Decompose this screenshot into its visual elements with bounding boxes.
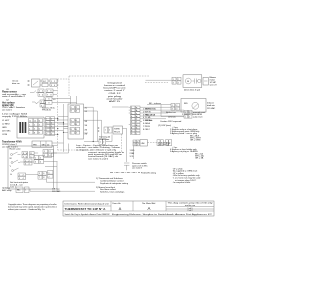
switch contact G fan bbox=[10, 168, 19, 176]
line voltage label block bbox=[2, 113, 28, 118]
svg-text:IND: IND bbox=[184, 103, 188, 105]
run capacitor box bbox=[203, 78, 208, 86]
wire : C13 drop bbox=[133, 146, 135, 159]
svg-text:7: 7 bbox=[39, 177, 40, 179]
dashed enclosure : corner link bbox=[58, 78, 70, 80]
connector C4 receptacle bbox=[30, 152, 35, 158]
note (2) short bbox=[158, 125, 179, 129]
svg-text:8 OR C: 8 OR C bbox=[143, 129, 151, 131]
pressure switch PS1 symbol bbox=[124, 163, 129, 170]
note 2 text block bbox=[96, 186, 125, 194]
twinning plug box bbox=[113, 126, 123, 134]
wire : blower feed neutral dashed bbox=[145, 81, 168, 83]
svg-text:24V SEC: 24V SEC bbox=[2, 131, 11, 133]
title block cell 2 text bbox=[113, 203, 122, 211]
title block cell 3 text bbox=[142, 202, 156, 211]
svg-text:3 Agency listed – use w. plug: 3 Agency listed – use w. plug bbox=[170, 132, 198, 135]
svg-text:see n.9: see n.9 bbox=[210, 85, 218, 87]
wire colour legend B bbox=[195, 153, 204, 160]
numbered note list A bbox=[170, 128, 200, 135]
svg-text:BL low: BL low bbox=[146, 120, 153, 122]
wire : collector to C11 bbox=[84, 135, 112, 142]
svg-text:4: 4 bbox=[40, 162, 41, 164]
svg-text:L2 NEU: L2 NEU bbox=[2, 124, 10, 126]
svg-text:GR = GRN: GR = GRN bbox=[190, 139, 201, 141]
svg-text:2: 2 bbox=[109, 130, 110, 132]
svg-text:2: 2 bbox=[54, 81, 55, 83]
limit switch S1 bbox=[32, 79, 41, 87]
svg-text:1: 1 bbox=[29, 124, 30, 126]
svg-text:LIM: LIM bbox=[141, 143, 145, 145]
svg-text:5: 5 bbox=[47, 91, 48, 93]
thermostat notes text bbox=[10, 181, 28, 189]
connector C4 plug bbox=[22, 152, 28, 158]
svg-text:7: 7 bbox=[45, 102, 46, 104]
svg-text:Limit sw: Limit sw bbox=[168, 116, 176, 119]
svg-text:L2: L2 bbox=[34, 120, 36, 122]
svg-text:GND: GND bbox=[2, 127, 7, 129]
terminal list text bbox=[130, 150, 135, 158]
svg-text:1: 1 bbox=[173, 79, 174, 81]
svg-text:6 GR A: 6 GR A bbox=[143, 122, 150, 125]
svg-text:4: 4 bbox=[169, 142, 170, 144]
svg-text:4: 4 bbox=[54, 85, 55, 87]
connector C5 bbox=[24, 159, 32, 165]
svg-text:1: 1 bbox=[158, 142, 159, 144]
svg-text:A: A bbox=[148, 206, 151, 211]
wire : IFC pins to risers bbox=[84, 107, 102, 133]
svg-text:door sw.: door sw. bbox=[12, 82, 20, 85]
connector C11 bbox=[99, 139, 106, 144]
svg-text:3: 3 bbox=[173, 83, 174, 85]
svg-text:L1: L1 bbox=[29, 120, 31, 122]
svg-text:THERMOSTAT TO 14P N° A: THERMOSTAT TO 14P N° A bbox=[65, 207, 106, 211]
svg-text:7: 7 bbox=[47, 95, 48, 97]
svg-text:2: 2 bbox=[42, 91, 43, 93]
node C6 label : top-left sensor callout bbox=[12, 80, 20, 86]
svg-text:RD 18GA: RD 18GA bbox=[146, 113, 156, 116]
svg-text:1: 1 bbox=[134, 141, 135, 143]
connector C7 edge bbox=[38, 172, 46, 180]
svg-text:1: 1 bbox=[185, 117, 186, 119]
svg-text:2: 2 bbox=[161, 142, 162, 144]
svg-text:and its use: and its use bbox=[185, 204, 196, 207]
svg-text:3: 3 bbox=[172, 109, 173, 111]
connector C1 plug bbox=[42, 79, 48, 87]
svg-text:3: 3 bbox=[51, 85, 52, 87]
wire : aux limit dashed link bbox=[147, 142, 157, 144]
svg-text:draft mtr: draft mtr bbox=[207, 104, 215, 107]
svg-text:8: 8 bbox=[43, 177, 44, 179]
wire : bus to IFC left pins bbox=[58, 117, 68, 127]
wire : riser R3 bbox=[101, 120, 103, 138]
svg-text:2: 2 bbox=[40, 157, 41, 159]
svg-text:1: 1 bbox=[25, 190, 26, 192]
svg-text:5: 5 bbox=[34, 128, 35, 130]
svg-text:Switch No. Key to Symbols. Ama: Switch No. Key to Symbols. Amana Parts 0… bbox=[65, 213, 111, 216]
svg-text:notes 2 and 7: notes 2 and 7 bbox=[105, 89, 126, 92]
svg-text:2: 2 bbox=[51, 119, 52, 121]
svg-text:1: 1 bbox=[44, 151, 45, 153]
bus wire vertical V1 bbox=[63, 104, 65, 152]
svg-text:4: 4 bbox=[44, 105, 45, 107]
title block frame bbox=[63, 201, 214, 216]
svg-text:8: 8 bbox=[51, 95, 52, 97]
svg-text:115 VAC: 115 VAC bbox=[207, 107, 216, 110]
svg-text:and header: and header bbox=[107, 97, 123, 100]
svg-text:Switches, fuses and plugs: Switches, fuses and plugs bbox=[100, 191, 125, 194]
under-box note text bbox=[76, 144, 125, 160]
connector C10 bbox=[16, 187, 29, 193]
svg-text:1: 1 bbox=[25, 160, 26, 162]
right row 1 : rollout switch bbox=[166, 110, 206, 114]
svg-text:M: M bbox=[187, 81, 189, 83]
twinning label text bbox=[99, 136, 110, 141]
terminal column TB1 bbox=[46, 117, 55, 136]
disclaimer paragraph bbox=[8, 203, 57, 211]
svg-text:L1 HOT: L1 HOT bbox=[2, 120, 10, 122]
switch contact W heat bbox=[10, 152, 21, 160]
wire : rollout feeds bbox=[161, 105, 184, 117]
svg-text:4: 4 bbox=[29, 164, 30, 166]
wire : riser R1 bbox=[92, 107, 94, 141]
svg-text:7: 7 bbox=[29, 132, 30, 134]
svg-text:Inducer: Inducer bbox=[207, 102, 214, 105]
svg-text:No. Metal Ref.: No. Metal Ref. bbox=[142, 202, 156, 205]
dashed drop from twin area bbox=[121, 134, 123, 152]
right row 2 : limit switch bbox=[168, 115, 203, 119]
svg-text:6: 6 bbox=[43, 173, 44, 175]
transformer T1 box bbox=[32, 141, 52, 147]
svg-text:Caution 115V exposed: Caution 115V exposed bbox=[160, 120, 182, 123]
terminal labels L1 L2 GND bbox=[2, 120, 11, 136]
switch contact Y cool bbox=[10, 160, 21, 168]
svg-text:BK – inducer: BK – inducer bbox=[149, 102, 161, 105]
inducer motor text bbox=[207, 102, 216, 110]
wire : verticals into IFC bbox=[52, 96, 77, 104]
svg-text:4: 4 bbox=[137, 144, 138, 146]
connector pins J1 bbox=[27, 80, 30, 86]
svg-text:1: 1 bbox=[49, 172, 50, 174]
svg-text:3: 3 bbox=[25, 164, 26, 166]
svg-text:manual reset: manual reset bbox=[193, 111, 206, 114]
svg-text:1: 1 bbox=[105, 130, 106, 132]
svg-text:Room t-stat: Room t-stat bbox=[10, 148, 21, 151]
bullet note list bbox=[172, 167, 201, 184]
svg-text:8: 8 bbox=[49, 102, 50, 104]
svg-text:1: 1 bbox=[51, 81, 52, 83]
junction dots on bus bbox=[57, 118, 64, 135]
fan-out wires CN1 to right bbox=[142, 107, 184, 119]
wire : inducer feed bbox=[147, 104, 171, 106]
svg-text:2: 2 bbox=[49, 176, 50, 178]
svg-text:2 BR: 2 BR bbox=[130, 153, 135, 155]
blower motor M1 bbox=[183, 75, 202, 88]
svg-text:COM: COM bbox=[2, 134, 7, 136]
connector C7b outside bbox=[48, 171, 53, 179]
twinning pins symbol bbox=[98, 127, 100, 132]
svg-text:4: 4 bbox=[178, 83, 179, 85]
svg-text:Rollout sw: Rollout sw bbox=[166, 111, 176, 114]
CN1 pin stubs bbox=[129, 107, 142, 124]
spark gap symbol E1 bbox=[30, 91, 38, 93]
wire : K1 pins to bus bbox=[44, 119, 68, 135]
svg-text:note 4 and table 2: note 4 and table 2 bbox=[2, 95, 26, 98]
svg-text:3: 3 bbox=[19, 178, 20, 180]
svg-text:5 Agency cut plug w. 18 AWG: 5 Agency cut plug w. 18 AWG bbox=[170, 150, 198, 153]
wire : label to header bbox=[112, 106, 129, 108]
svg-text:1: 1 bbox=[172, 105, 173, 107]
thermostat label bbox=[10, 148, 21, 151]
connector C14 bbox=[157, 140, 163, 146]
svg-text:see notes 5 and 6: see notes 5 and 6 bbox=[88, 157, 109, 160]
blower motor connector C16 bbox=[172, 77, 181, 84]
blower motor text bbox=[210, 76, 218, 87]
wire : riser R2 bbox=[97, 111, 99, 142]
svg-text:1: 1 bbox=[19, 175, 20, 177]
svg-text:3: 3 bbox=[166, 142, 167, 144]
svg-text:7: 7 bbox=[46, 130, 47, 132]
svg-text:3: 3 bbox=[35, 162, 36, 164]
numbered note list B bbox=[170, 148, 198, 153]
svg-text:see note 8: see note 8 bbox=[132, 167, 143, 170]
svg-text:3: 3 bbox=[39, 124, 40, 126]
lower-left legend text bbox=[2, 187, 12, 192]
fan-out wire labels bbox=[146, 108, 156, 123]
transformer T1 text bbox=[2, 141, 22, 149]
svg-text:Dimensions: Refer dimensional: Dimensions: Refer dimensional dwg of uni… bbox=[65, 203, 109, 206]
note text : igniter harness bbox=[42, 107, 56, 112]
wire : C9 to IFC bbox=[53, 144, 68, 154]
svg-text:Duplicate of anticipator setti: Duplicate of anticipator setting bbox=[100, 182, 129, 185]
svg-text:(4) C/W tag: (4) C/W tag bbox=[158, 144, 170, 147]
svg-text:AMP 15: AMP 15 bbox=[109, 100, 121, 103]
svg-text:note 1: note 1 bbox=[10, 186, 17, 189]
svg-text:· In neoprene sheet: · In neoprene sheet bbox=[172, 181, 191, 184]
svg-text:1: 1 bbox=[39, 91, 40, 93]
svg-text:PLUG: PLUG bbox=[114, 132, 120, 134]
svg-text:1: 1 bbox=[35, 157, 36, 159]
svg-text:4: 4 bbox=[29, 128, 30, 130]
svg-text:Dwn chk: Dwn chk bbox=[113, 203, 122, 205]
flame sensor FS text bbox=[2, 91, 27, 99]
svg-text:2: 2 bbox=[29, 160, 30, 162]
connector C6 bbox=[18, 173, 26, 179]
main edge connector CN1 bbox=[131, 106, 141, 135]
dash-dot field wiring line bbox=[110, 172, 140, 174]
wire colour legend A bbox=[190, 136, 202, 142]
svg-text:3: 3 bbox=[39, 95, 40, 97]
title block cell 1 text bbox=[65, 203, 111, 216]
svg-text:2: 2 bbox=[189, 112, 190, 114]
limit control row : connector C13 bbox=[133, 140, 139, 146]
svg-text:6: 6 bbox=[49, 99, 50, 101]
svg-text:Engineering Release. Simplex t: Engineering Release. Simplex to Switchbo… bbox=[112, 213, 213, 216]
connector C8 receptacle bbox=[46, 89, 57, 96]
connector C2 receptacle bbox=[44, 97, 56, 104]
svg-text:8: 8 bbox=[51, 130, 52, 132]
svg-text:4: 4 bbox=[42, 95, 43, 97]
svg-text:3: 3 bbox=[44, 155, 45, 157]
integrated furnace control board IFC U1 bbox=[68, 104, 84, 139]
svg-text:6: 6 bbox=[51, 91, 52, 93]
connector C2 plug bbox=[40, 100, 46, 107]
svg-text:Blower: Blower bbox=[210, 76, 217, 79]
svg-text:1: 1 bbox=[46, 119, 47, 121]
svg-text:4: 4 bbox=[50, 155, 51, 157]
thermostat enclosure TH1 bbox=[8, 146, 54, 189]
svg-text:auto reset: auto reset bbox=[193, 116, 203, 119]
svg-text:5: 5 bbox=[39, 173, 40, 175]
connector C9 pair bbox=[43, 150, 53, 157]
svg-text:2: 2 bbox=[103, 141, 104, 143]
svg-text:1: 1 bbox=[41, 102, 42, 104]
svg-text:2: 2 bbox=[189, 117, 190, 119]
svg-text:2: 2 bbox=[178, 79, 179, 81]
svg-text:2: 2 bbox=[34, 124, 35, 126]
svg-text:5: 5 bbox=[45, 99, 46, 101]
svg-text:2: 2 bbox=[137, 141, 138, 143]
svg-text:2: 2 bbox=[176, 105, 177, 107]
wire : tstat internal bbox=[20, 153, 58, 175]
connector C8 plug bbox=[38, 89, 44, 96]
twinning connector C12 bbox=[104, 127, 112, 133]
svg-text:6: 6 bbox=[39, 128, 40, 130]
svg-text:8: 8 bbox=[34, 132, 35, 134]
svg-text:7 PR B: 7 PR B bbox=[143, 126, 150, 128]
svg-text:see note 6: see note 6 bbox=[2, 108, 13, 111]
wire : twin plug to LS riser bbox=[123, 129, 127, 163]
connector C15 bbox=[165, 140, 171, 146]
wire : S1 to C1 bbox=[40, 81, 59, 85]
aux limit box bbox=[140, 140, 147, 146]
svg-text:P/N 0131: P/N 0131 bbox=[42, 110, 52, 112]
svg-text:2: 2 bbox=[50, 151, 51, 153]
svg-text:A: A bbox=[119, 206, 122, 211]
EAC terminal text bbox=[52, 188, 61, 193]
svg-text:2: 2 bbox=[23, 175, 24, 177]
svg-text:without prior consent – Goodma: without prior consent – Goodman Mfg. Co. bbox=[8, 208, 45, 211]
note (3)(4) lines bbox=[158, 143, 178, 149]
connector pin numbers overlay bbox=[17, 79, 190, 192]
igniter text block bbox=[2, 101, 25, 111]
svg-text:2 of 2: 2 of 2 bbox=[187, 210, 193, 212]
inducer connector C17 bbox=[171, 104, 180, 111]
wire : tstat risers bbox=[52, 153, 57, 167]
CN1 pin labels bbox=[143, 109, 152, 131]
svg-text:motor: motor bbox=[210, 78, 216, 81]
inducer motor M2 bbox=[181, 99, 206, 113]
dashed enclosure : blower compartment inner bbox=[69, 76, 150, 96]
wire : tstat down runs bbox=[30, 167, 95, 192]
svg-text:EAC relay: EAC relay bbox=[2, 189, 12, 192]
control box label text bbox=[104, 82, 127, 103]
dashed enclosure : furnace cabinet outer bbox=[58, 79, 93, 150]
wire : T1 to bus bbox=[52, 143, 64, 146]
igniter element symbol bbox=[32, 102, 39, 104]
note 1 text block bbox=[96, 177, 129, 185]
svg-text:3: 3 bbox=[41, 105, 42, 107]
svg-text:(2) C/W (size): (2) C/W (size) bbox=[158, 125, 171, 127]
pressure switch text bbox=[132, 162, 148, 170]
svg-text:4: 4 bbox=[176, 109, 177, 111]
svg-text:120 VAC: 120 VAC bbox=[52, 190, 61, 193]
svg-text:TWIN: TWIN bbox=[114, 129, 120, 131]
svg-text:1: 1 bbox=[100, 141, 101, 143]
svg-text:Field 24V wiring: Field 24V wiring bbox=[141, 172, 157, 175]
IFC right pin labels bbox=[85, 108, 88, 136]
title block cell 4 text bbox=[168, 202, 214, 212]
svg-text:4: 4 bbox=[23, 178, 24, 180]
svg-text:WH 18GA: WH 18GA bbox=[146, 108, 156, 111]
svg-text:1 RD: 1 RD bbox=[130, 150, 135, 152]
connector C5b grid bbox=[34, 156, 44, 164]
connector C1 receptacle bbox=[50, 79, 57, 87]
svg-text:1: 1 bbox=[185, 112, 186, 114]
svg-text:GR = 3A: GR = 3A bbox=[195, 157, 204, 160]
svg-text:direct drive 4 spd: direct drive 4 spd bbox=[184, 89, 201, 92]
junction box / contactor K1 bbox=[17, 117, 44, 138]
svg-text:3: 3 bbox=[134, 144, 135, 146]
wire : blower feed hot bbox=[146, 79, 173, 81]
svg-text:9: 9 bbox=[39, 132, 40, 134]
